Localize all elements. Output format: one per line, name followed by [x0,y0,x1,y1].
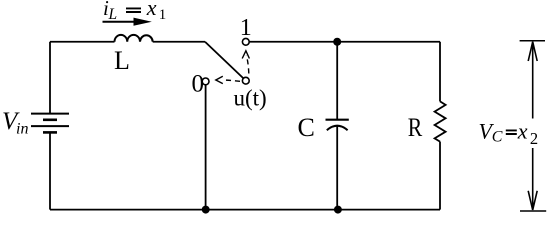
label iL = x1 [103,0,166,23]
svg-text:0: 0 [192,71,205,98]
svg-text:x: x [146,0,157,20]
svg-text:in: in [16,121,28,138]
svg-text:2: 2 [530,129,538,148]
wire switch pole 0 down [205,85,207,210]
wire capacitor branch upper [336,42,338,120]
svg-text:x: x [517,119,528,144]
wire switch pole 1 to right [249,41,440,43]
wire top-left horizontal [50,41,115,43]
battery short plate 2 [43,131,57,134]
wire left vertical upper [49,42,51,113]
svg-text:u(t): u(t) [234,85,267,110]
wire inductor to switch [153,41,205,43]
switch dashed arrow left to 0 [216,76,240,83]
wire capacitor branch lower [336,126,338,210]
battery long plate 2 [31,125,69,127]
capacitor C flat plate [326,119,349,121]
svg-text:1: 1 [240,15,252,41]
svg-text:C: C [298,113,315,142]
label Vin [2,108,28,138]
switch contact circle 0 [202,78,209,85]
resistor R zigzag [435,101,446,141]
switch u(t) common contact circle [242,77,249,84]
wire bottom [50,209,440,211]
svg-text:C: C [492,128,503,145]
svg-text:L: L [108,6,118,23]
switch dashed arrow up to 1 [242,51,249,74]
current arrow iL [103,18,152,26]
battery Vin plate long top [31,113,69,115]
voltage dimension arrow VC [520,41,547,211]
wire left vertical lower [49,133,51,210]
svg-text:L: L [114,46,130,75]
battery short plate 1 [43,119,57,122]
switch contact circle 1 [242,38,249,45]
label VC = x2 [479,119,539,149]
inductor L [115,35,153,42]
capacitor C curved plate [327,126,348,131]
wire right vertical upper [439,42,441,102]
svg-text:1: 1 [159,7,167,23]
svg-text:R: R [408,113,423,142]
junction node bottom (cap branch) [334,206,342,214]
junction node top (cap to top wire) [333,38,341,46]
wire switch blade diagonal [205,42,243,78]
wire right vertical lower [439,142,441,210]
junction node bottom left (switch 0 branch) [202,206,210,214]
